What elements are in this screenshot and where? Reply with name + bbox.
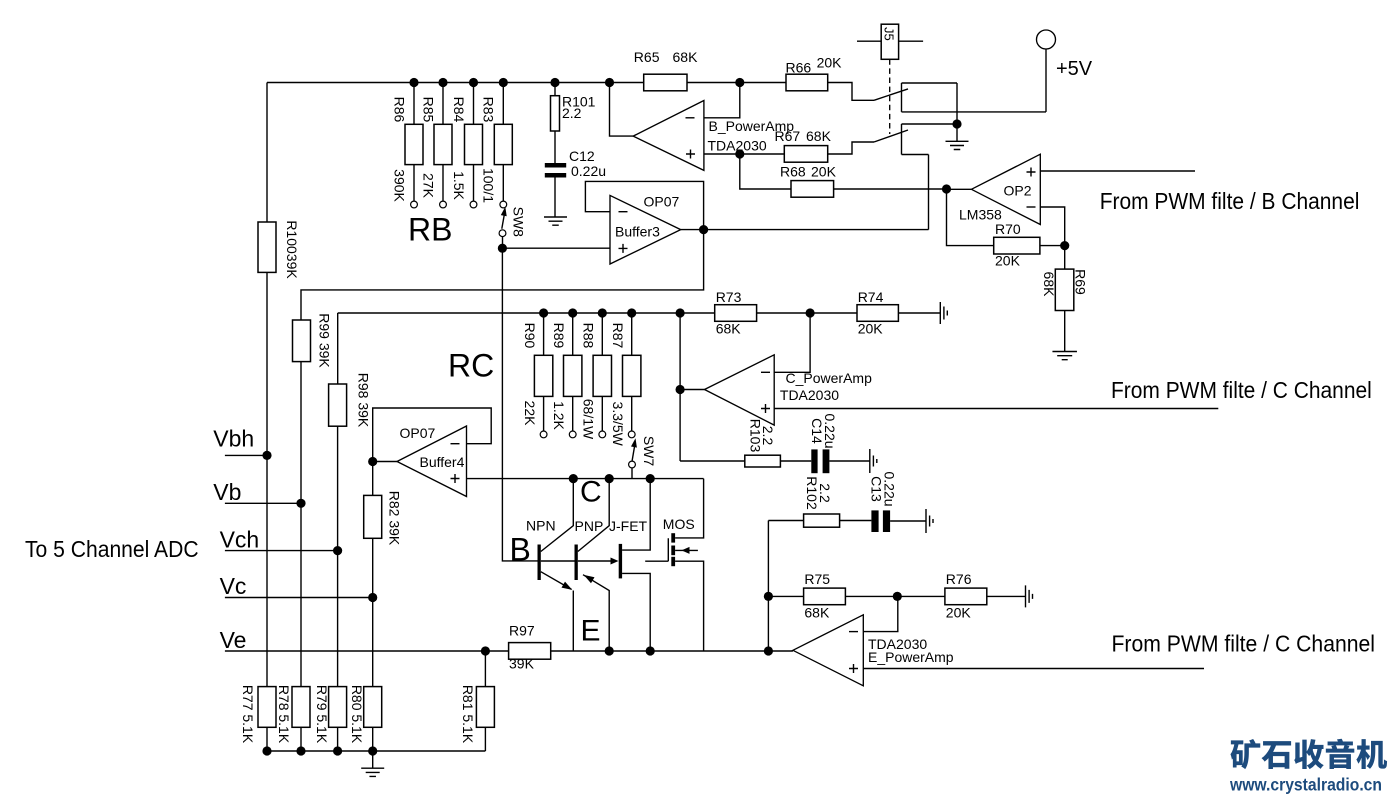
node C out node bbox=[676, 385, 685, 394]
node C_PowerAmp out/R73 node bbox=[676, 308, 685, 317]
terminal SW8 lower bbox=[499, 230, 506, 237]
resistor R67 bbox=[775, 128, 832, 162]
svg-text:Vc: Vc bbox=[220, 573, 247, 599]
op-amp OP2 LM358 bbox=[971, 154, 1040, 224]
svg-text:2.2: 2.2 bbox=[562, 105, 582, 121]
svg-text:R76: R76 bbox=[946, 571, 972, 587]
wire out to R103 bbox=[680, 460, 745, 462]
node R75 node bbox=[764, 592, 773, 601]
wire to R70 bbox=[947, 189, 994, 246]
svg-text:39K: 39K bbox=[509, 656, 535, 672]
wire R73 to R74 bbox=[757, 312, 857, 314]
svg-text:PNP: PNP bbox=[575, 518, 604, 534]
svg-text:MOS: MOS bbox=[663, 516, 695, 532]
svg-text:R90: R90 bbox=[522, 323, 538, 349]
node R88 top bbox=[598, 308, 607, 317]
node R83 top bbox=[499, 78, 508, 87]
node Buffer4 out node bbox=[368, 457, 377, 466]
node E_PowerAmp node bbox=[764, 646, 773, 655]
svg-text:C12: C12 bbox=[569, 148, 595, 164]
terminal SW7 lower bbox=[629, 461, 636, 468]
wire C_PowerAmp - feedback bbox=[774, 313, 810, 372]
svg-text:R86: R86 bbox=[391, 97, 407, 123]
svg-text:E_PowerAmp: E_PowerAmp bbox=[868, 649, 954, 665]
svg-text:J5: J5 bbox=[882, 27, 897, 41]
wire branch to R68 bbox=[740, 154, 791, 189]
wire Vb to R78 bbox=[300, 503, 302, 686]
capacitor C12 bbox=[545, 148, 606, 217]
wire to ground bbox=[372, 751, 374, 768]
node R89 top bbox=[568, 308, 577, 317]
connector J5 bbox=[857, 24, 923, 59]
power +5V bbox=[1037, 30, 1093, 112]
node R78 bottom bbox=[296, 746, 305, 755]
wire Buffer3 feedback bbox=[585, 181, 703, 229]
switch upper contact (J5 relay) bbox=[874, 83, 1046, 124]
wire Buffer3 out to R99 bbox=[301, 230, 704, 320]
wire C channel input line (bottom) bbox=[863, 668, 1204, 670]
svg-text:R82 39K: R82 39K bbox=[386, 491, 402, 546]
svg-text:R70: R70 bbox=[995, 221, 1021, 237]
svg-text:R77 5.1K: R77 5.1K bbox=[240, 685, 256, 744]
svg-text:Vch: Vch bbox=[220, 527, 260, 553]
resistor R69 bbox=[1041, 246, 1089, 352]
resistor R80 bbox=[349, 685, 382, 751]
terminal R90 terminal bbox=[540, 431, 547, 438]
node Vb bbox=[296, 499, 305, 508]
svg-text:R74: R74 bbox=[858, 289, 884, 305]
svg-text:0.22u: 0.22u bbox=[571, 163, 606, 179]
resistor R73 bbox=[715, 289, 757, 337]
wire B feedback top line + R66/R67 jogs bbox=[267, 83, 874, 155]
node R90 top bbox=[539, 308, 548, 317]
svg-text:R99 39K: R99 39K bbox=[316, 313, 332, 368]
node R65/R66 junction bbox=[735, 78, 744, 87]
svg-text:R78 5.1K: R78 5.1K bbox=[276, 685, 292, 744]
capacitor C14 bbox=[809, 413, 838, 473]
wire B_PowerAmp + to R67 bbox=[704, 153, 784, 155]
svg-text:Buffer4: Buffer4 bbox=[420, 454, 465, 470]
resistor R97 bbox=[509, 623, 551, 672]
wire C line bbox=[467, 478, 704, 480]
wire C out column bbox=[679, 313, 681, 461]
svg-text:R97: R97 bbox=[509, 623, 535, 639]
svg-text:OP07: OP07 bbox=[644, 194, 680, 210]
svg-text:R75: R75 bbox=[804, 571, 830, 587]
svg-text:R98 39K: R98 39K bbox=[355, 373, 371, 428]
node contact/ground node bbox=[952, 119, 961, 128]
svg-text:RC: RC bbox=[448, 348, 494, 384]
svg-text:C: C bbox=[580, 476, 602, 509]
svg-text:Vb: Vb bbox=[213, 479, 241, 505]
svg-text:E: E bbox=[581, 615, 601, 648]
wire B column to NPN base bbox=[502, 248, 537, 561]
svg-text:1.5K: 1.5K bbox=[451, 171, 467, 200]
svg-text:20K: 20K bbox=[946, 605, 972, 621]
svg-text:+5V: +5V bbox=[1056, 58, 1093, 80]
node R67/R68 branch bbox=[735, 149, 744, 158]
svg-text:20K: 20K bbox=[995, 253, 1021, 269]
wire Vc line bbox=[225, 597, 373, 599]
svg-text:NPN: NPN bbox=[526, 518, 556, 534]
svg-text:R87: R87 bbox=[610, 323, 626, 349]
svg-text:R73: R73 bbox=[716, 289, 742, 305]
wire left column to Vbh bbox=[266, 272, 268, 455]
wire E out column bbox=[767, 521, 769, 652]
svg-text:www.crystalradio.cn: www.crystalradio.cn bbox=[1229, 775, 1382, 795]
wire Vb line bbox=[225, 502, 301, 504]
ground bbox=[940, 302, 947, 324]
resistor R81 bbox=[460, 651, 494, 751]
wire Vch to R79 bbox=[337, 551, 339, 687]
svg-text:0.22u: 0.22u bbox=[822, 413, 838, 448]
terminal R86 terminal bbox=[411, 201, 418, 208]
resistor R101 bbox=[551, 83, 596, 164]
wire R74 to ground bbox=[898, 312, 940, 314]
resistor R102 bbox=[804, 476, 840, 527]
node R79 bottom bbox=[333, 746, 342, 755]
op-amp U Buffer3 OP07 bbox=[610, 195, 681, 264]
resistor R74 bbox=[857, 289, 898, 337]
watermark logo crystalradio bbox=[1230, 739, 1387, 769]
wire RC line bbox=[338, 312, 715, 314]
wire Buffer3 output to switch bbox=[681, 229, 929, 231]
node R86 top bbox=[409, 78, 418, 87]
resistor R83 bbox=[481, 83, 513, 204]
wire left column top segment bbox=[266, 83, 268, 223]
svg-text:68K: 68K bbox=[673, 49, 699, 65]
node R73/R74 node bbox=[806, 308, 815, 317]
node Vbh bbox=[262, 451, 271, 460]
ground bbox=[926, 509, 933, 533]
transistor NPN bbox=[526, 479, 573, 651]
svg-text:TDA2030: TDA2030 bbox=[780, 387, 839, 403]
wire R103 to C14 bbox=[780, 460, 811, 462]
svg-text:68K: 68K bbox=[716, 321, 742, 337]
node Ve/R81 bbox=[481, 646, 490, 655]
svg-text:20K: 20K bbox=[811, 164, 837, 180]
svg-text:1.2K: 1.2K bbox=[551, 401, 567, 430]
resistor R66 bbox=[786, 55, 843, 91]
svg-text:20K: 20K bbox=[817, 55, 843, 71]
svg-text:R88: R88 bbox=[581, 323, 597, 349]
transistor J-FET bbox=[578, 479, 650, 651]
svg-text:R68: R68 bbox=[780, 164, 806, 180]
svg-text:390K: 390K bbox=[391, 169, 407, 202]
wire to R102 bbox=[768, 520, 803, 522]
wire C_PowerAmp out bbox=[680, 389, 704, 391]
resistor R88 bbox=[581, 313, 612, 440]
svg-text:2.2: 2.2 bbox=[760, 426, 776, 446]
node B wiper node bbox=[498, 244, 507, 253]
switch lower contact (J5 relay) bbox=[874, 124, 957, 230]
wire Buffer4 feedback bbox=[373, 408, 492, 462]
resistor R82 bbox=[364, 462, 403, 598]
wire Vch line bbox=[225, 550, 338, 552]
terminal R87 terminal bbox=[628, 431, 635, 438]
node R84 top bbox=[469, 78, 478, 87]
svg-text:From PWM filte / C Channel: From PWM filte / C Channel bbox=[1112, 631, 1376, 657]
wire R98 top lead bbox=[337, 313, 339, 384]
transistor MOS bbox=[645, 479, 703, 651]
node R87 top bbox=[627, 308, 636, 317]
svg-text:To 5 Channel ADC: To 5 Channel ADC bbox=[25, 536, 199, 562]
wire to R75 bbox=[768, 595, 803, 597]
svg-text:R81 5.1K: R81 5.1K bbox=[460, 685, 476, 744]
wire R75 to R76 bbox=[845, 595, 945, 597]
svg-text:From PWM filte / B Channel: From PWM filte / B Channel bbox=[1100, 188, 1360, 214]
svg-text:R83: R83 bbox=[481, 97, 497, 123]
wire J5 dashed bbox=[889, 59, 891, 134]
wire Vc to R80 bbox=[372, 598, 374, 687]
node Vc bbox=[368, 593, 377, 602]
svg-text:68K: 68K bbox=[806, 128, 832, 144]
transistor PNP bbox=[541, 479, 609, 651]
op-amp U Buffer4 OP07 bbox=[397, 426, 467, 497]
svg-text:R84: R84 bbox=[451, 97, 467, 123]
terminal R85 terminal bbox=[440, 201, 447, 208]
node Buffer3 out node bbox=[699, 225, 708, 234]
wire SW7 to C line bbox=[631, 468, 633, 479]
resistor R89 bbox=[551, 313, 582, 431]
capacitor C13 bbox=[868, 471, 897, 532]
svg-text:J-FET: J-FET bbox=[609, 518, 648, 534]
svg-text:27K: 27K bbox=[420, 173, 436, 199]
svg-text:RB: RB bbox=[408, 212, 452, 248]
svg-text:3.3/5W: 3.3/5W bbox=[610, 402, 626, 447]
svg-text:B: B bbox=[510, 532, 531, 568]
ground bbox=[1026, 585, 1033, 607]
resistor R87 bbox=[610, 313, 641, 447]
wire left column Vbh to R77 bbox=[266, 455, 268, 686]
node JFET D bbox=[646, 474, 655, 483]
svg-text:68K: 68K bbox=[804, 605, 830, 621]
svg-text:0.22u: 0.22u bbox=[881, 471, 897, 506]
wire bottom bus bbox=[267, 750, 485, 752]
svg-text:R10039K: R10039K bbox=[284, 220, 300, 279]
svg-text:R66: R66 bbox=[786, 60, 812, 76]
wire E_PowerAmp - feedback bbox=[863, 596, 898, 631]
op-amp E_PowerAmp TDA2030 bbox=[793, 615, 863, 686]
resistor R78 bbox=[276, 685, 310, 751]
resistor R77 bbox=[240, 685, 276, 751]
resistor R84 bbox=[451, 83, 483, 202]
terminal R83 terminal bbox=[500, 201, 507, 208]
ground bbox=[870, 449, 877, 473]
node R75/R76 node bbox=[893, 592, 902, 601]
resistor R65 bbox=[634, 49, 698, 91]
svg-text:OP2: OP2 bbox=[1004, 183, 1032, 199]
node R80 bottom bbox=[368, 746, 377, 755]
wire C13 to ground bbox=[890, 520, 926, 522]
ground bbox=[1052, 352, 1077, 360]
svg-text:OP07: OP07 bbox=[400, 425, 436, 441]
svg-text:68K: 68K bbox=[1041, 272, 1057, 298]
wire Buffer3 + input bbox=[502, 247, 609, 249]
wire E line (Ve) bbox=[225, 650, 793, 652]
node R77 bottom bbox=[262, 746, 271, 755]
svg-text:R85: R85 bbox=[420, 97, 436, 123]
wire C channel input line (middle) bbox=[774, 408, 1218, 410]
terminal R88 terminal bbox=[599, 431, 606, 438]
svg-text:Buffer3: Buffer3 bbox=[615, 224, 660, 240]
svg-text:68/1W: 68/1W bbox=[581, 399, 597, 440]
node OP2 out node bbox=[942, 184, 951, 193]
wire SW8 to node bbox=[502, 237, 504, 249]
resistor R99 bbox=[293, 313, 333, 368]
svg-text:2.2: 2.2 bbox=[817, 483, 833, 503]
node Vch bbox=[333, 546, 342, 555]
svg-text:R67: R67 bbox=[775, 128, 801, 144]
resistor R103 bbox=[745, 419, 781, 467]
wire Vbh line bbox=[225, 454, 267, 456]
resistor R86 bbox=[391, 83, 423, 203]
svg-text:20K: 20K bbox=[858, 321, 884, 337]
resistor R68 bbox=[780, 164, 947, 198]
svg-text:22K: 22K bbox=[522, 401, 538, 427]
op-amp B_PowerAmp TDA2030 bbox=[633, 101, 704, 171]
wire B channel input line bbox=[1040, 170, 1195, 172]
wire R76 to ground bbox=[987, 595, 1026, 597]
node R69/R70 node bbox=[1060, 241, 1069, 250]
wire R98 to Vch bbox=[337, 426, 339, 550]
terminal R89 terminal bbox=[569, 431, 576, 438]
resistor R70 bbox=[994, 221, 1040, 269]
resistor R85 bbox=[420, 83, 452, 202]
ground bbox=[946, 141, 969, 149]
svg-text:SW8: SW8 bbox=[510, 207, 526, 238]
node JFET S bbox=[646, 646, 655, 655]
svg-text:R65: R65 bbox=[634, 49, 660, 65]
node R85 top bbox=[438, 78, 447, 87]
node B_PowerAmp out bbox=[605, 78, 614, 87]
wire R102 to C13 bbox=[840, 520, 872, 522]
resistor R98 bbox=[329, 373, 372, 428]
wire R70 to node bbox=[1040, 245, 1065, 247]
wire Buffer4 out bbox=[373, 461, 397, 463]
resistor R90 bbox=[522, 313, 553, 431]
ground bbox=[544, 217, 567, 225]
switch SW7 bbox=[631, 436, 657, 467]
resistor R76 bbox=[945, 571, 987, 621]
svg-text:Vbh: Vbh bbox=[213, 426, 254, 452]
wire B_PowerAmp feedback bbox=[704, 83, 740, 118]
node R101 top bbox=[550, 78, 559, 87]
svg-text:R79 5.1K: R79 5.1K bbox=[314, 685, 330, 744]
svg-text:100/1: 100/1 bbox=[481, 168, 497, 203]
wire R99 to Vb bbox=[300, 362, 302, 504]
svg-text:SW7: SW7 bbox=[641, 436, 657, 467]
resistor R75 bbox=[804, 571, 846, 621]
wire to OP2 - bbox=[1040, 207, 1064, 246]
terminal R84 terminal bbox=[470, 201, 477, 208]
wire B_PowerAmp output to B line bbox=[610, 83, 634, 137]
svg-text:From PWM filte / C Channel: From PWM filte / C Channel bbox=[1111, 377, 1372, 403]
ground bbox=[361, 768, 384, 776]
wire C14 to ground bbox=[829, 460, 869, 462]
node PNP E bbox=[605, 646, 614, 655]
svg-text:R69: R69 bbox=[1072, 269, 1088, 295]
node PNP C bbox=[605, 474, 614, 483]
svg-text:R80 5.1K: R80 5.1K bbox=[349, 685, 365, 744]
wire OP2 output bbox=[947, 188, 972, 190]
op-amp C_PowerAmp TDA2030 bbox=[705, 355, 775, 425]
svg-text:Ve: Ve bbox=[220, 627, 247, 653]
resistor R100 bbox=[258, 220, 300, 279]
resistor R79 bbox=[314, 685, 347, 751]
switch SW8 bbox=[501, 207, 527, 238]
wire to ground bbox=[956, 124, 958, 141]
svg-text:R89: R89 bbox=[551, 323, 567, 349]
node NPN C bbox=[569, 474, 578, 483]
